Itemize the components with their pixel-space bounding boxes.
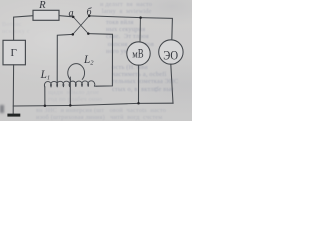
svg-text:L1: L1 (40, 69, 50, 82)
svg-text:R: R (38, 0, 46, 11)
svg-text:В: В (138, 47, 144, 61)
svg-text:м: м (132, 49, 138, 61)
svg-text:ЭО: ЭО (163, 48, 178, 62)
svg-text:L2: L2 (83, 54, 94, 67)
svg-text:a: a (68, 8, 73, 19)
svg-text:Г: Г (11, 47, 17, 59)
